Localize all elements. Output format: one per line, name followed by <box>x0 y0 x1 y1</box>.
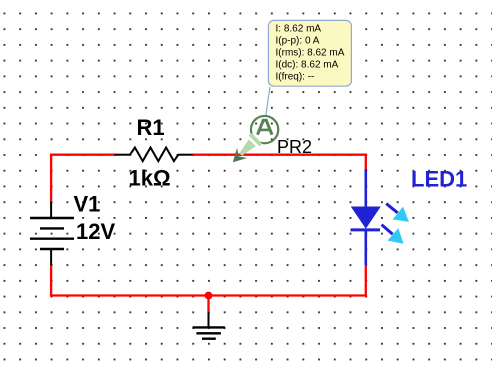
svg-text:V1: V1 <box>74 192 101 217</box>
wire bottom rail <box>51 295 366 296</box>
resistor R1 <box>115 148 193 162</box>
wire top-left (V1 to R1) <box>51 155 115 157</box>
wire top-right (R1 to LED1) <box>193 155 366 170</box>
barbed head <box>228 148 248 168</box>
tooltip box <box>268 20 351 86</box>
svg-text:PR2: PR2 <box>277 137 312 157</box>
svg-text:I(dc): 8.62 mA: I(dc): 8.62 mA <box>276 59 339 70</box>
wire right (LED1 bottom to rail) <box>365 264 367 296</box>
LED1 bottom lead <box>364 229 367 265</box>
wire left (top rail to V1) <box>50 155 52 203</box>
wire left-bottom (V1 to bottom rail) <box>50 265 52 296</box>
probe PR2 dagger arrow <box>227 133 262 168</box>
svg-text:LED1: LED1 <box>411 166 467 191</box>
svg-text:I(freq): --: I(freq): -- <box>276 71 315 82</box>
wire ground stub <box>207 296 209 313</box>
LED1 light arrow 2 <box>376 218 409 250</box>
hilt <box>249 133 263 147</box>
LED1 top lead <box>364 169 367 208</box>
probe PR2 circle <box>251 116 278 143</box>
blade <box>237 139 256 158</box>
ground <box>193 312 225 339</box>
node junction dot <box>205 292 213 300</box>
LED1 cathode bar <box>351 228 381 231</box>
svg-text:12V: 12V <box>76 219 115 244</box>
tooltip text <box>276 24 345 83</box>
LED1 light arrow 1 <box>381 197 414 228</box>
svg-text:R1: R1 <box>137 115 165 140</box>
svg-text:I(rms): 8.62 mA: I(rms): 8.62 mA <box>276 48 345 59</box>
battery V1 <box>30 202 74 265</box>
svg-text:I: 8.62 mA: I: 8.62 mA <box>276 24 322 35</box>
callout line <box>266 87 270 115</box>
LED1 triangle <box>351 207 381 229</box>
svg-text:I(p-p): 0 A: I(p-p): 0 A <box>276 36 320 47</box>
svg-text:1kΩ: 1kΩ <box>129 166 171 191</box>
probe PR2 letter A <box>258 120 273 134</box>
